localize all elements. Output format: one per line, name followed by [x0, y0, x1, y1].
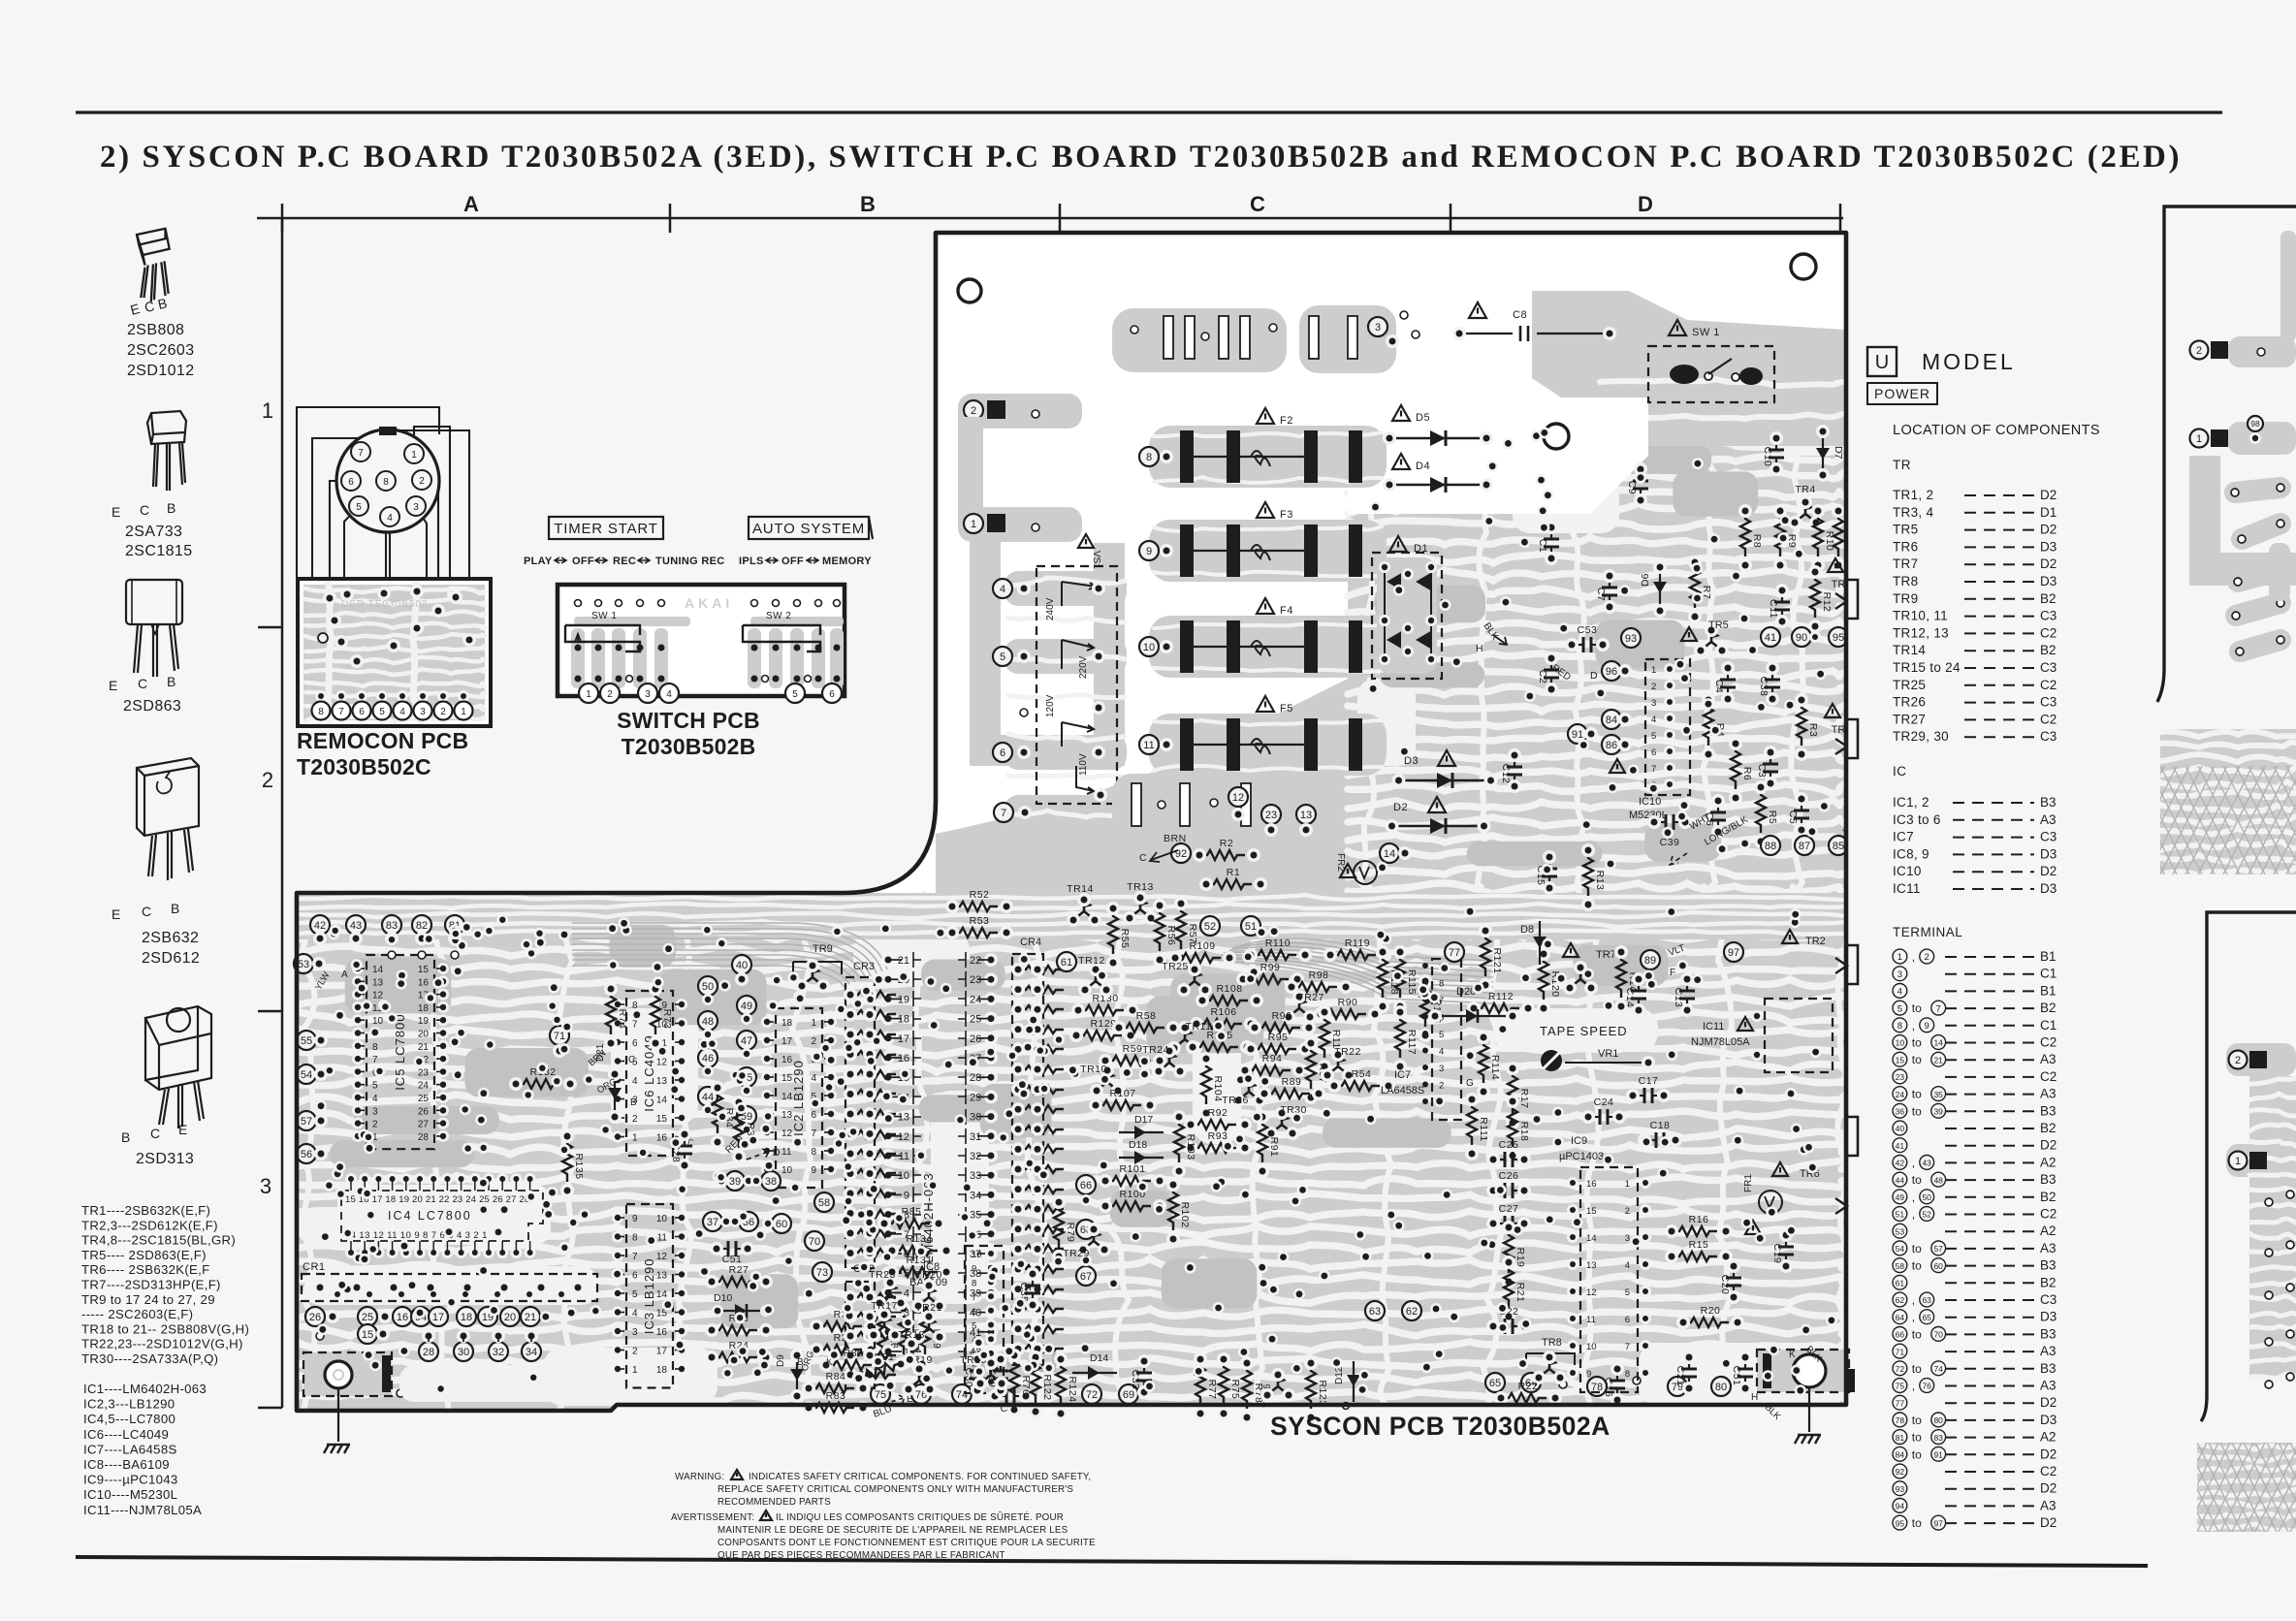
- svg-text:F3: F3: [1280, 509, 1293, 521]
- svg-text:3: 3: [1625, 1233, 1630, 1244]
- U MODEL header: [1867, 347, 1897, 376]
- diode D5: [1392, 405, 1410, 421]
- svg-text:75: 75: [875, 1389, 886, 1401]
- svg-text:10: 10: [656, 1214, 668, 1224]
- svg-text:R123: R123: [1317, 1380, 1328, 1406]
- svg-text:D4: D4: [1416, 461, 1430, 472]
- REMOCON DIN connector: [336, 429, 439, 532]
- svg-text:AUTO SYSTEM: AUTO SYSTEM: [752, 521, 865, 537]
- resistor R23: [712, 1325, 757, 1335]
- svg-text:7: 7: [1001, 808, 1006, 819]
- svg-text:7: 7: [811, 1128, 816, 1139]
- ruler tick: [281, 204, 284, 233]
- svg-text:2: 2: [971, 405, 976, 417]
- mounting hole bottom-right: [1757, 1350, 1849, 1392]
- svg-text:B2: B2: [2040, 1121, 2057, 1135]
- resistor R129: [1076, 1031, 1122, 1040]
- svg-text:CR1: CR1: [303, 1261, 326, 1273]
- svg-text:TR3, 4: TR3, 4: [1893, 505, 1934, 520]
- transistor TR17: [875, 1316, 894, 1334]
- svg-text:2SC2603: 2SC2603: [127, 342, 195, 359]
- svg-text:3: 3: [260, 1174, 271, 1198]
- svg-text:110V: 110V: [1078, 753, 1089, 776]
- SYSCON board outline: [297, 233, 1846, 1411]
- svg-text:95: 95: [1833, 632, 1844, 644]
- svg-text:R98: R98: [1309, 969, 1329, 981]
- svg-text:14: 14: [1384, 848, 1395, 860]
- fragment2 copper: [2226, 1043, 2296, 1076]
- svg-text:IC8, 9: IC8, 9: [1893, 846, 1929, 861]
- resistor R91: [1258, 1117, 1267, 1162]
- svg-text:A3: A3: [2040, 812, 2057, 827]
- svg-text:IC4 LC7800: IC4 LC7800: [388, 1209, 472, 1223]
- svg-text:A3: A3: [2040, 1241, 2057, 1255]
- svg-text:A3: A3: [2040, 1344, 2057, 1358]
- svg-text:96: 96: [1606, 666, 1617, 678]
- white pocket above bottom edge: [399, 1365, 618, 1402]
- svg-text:R73: R73: [661, 1009, 673, 1030]
- svg-text:C26: C26: [1499, 1170, 1519, 1182]
- svg-text:1: 1: [262, 398, 273, 423]
- vertical trace between terminals 2 and 1: [958, 417, 983, 519]
- svg-text:10: 10: [898, 1170, 909, 1182]
- resistor R55: [1108, 908, 1118, 954]
- svg-text:C2: C2: [2040, 625, 2057, 640]
- svg-text:C20: C20: [1719, 1275, 1731, 1295]
- svg-text:B3: B3: [2040, 1103, 2057, 1118]
- svg-text:R92: R92: [1208, 1107, 1228, 1119]
- ruler tick: [1839, 204, 1842, 233]
- transistor TR25: [1185, 970, 1204, 989]
- svg-text:R76: R76: [1020, 1376, 1032, 1396]
- resistor R79: [1054, 1202, 1064, 1248]
- mounting hole top-right: [1791, 254, 1816, 279]
- svg-text:TR17: TR17: [871, 1300, 898, 1312]
- svg-text:95: 95: [1896, 1518, 1905, 1528]
- svg-text:15: 15: [418, 965, 430, 975]
- connector pin 8: [376, 471, 396, 491]
- right fragment crosshatch block 2: [2197, 1443, 2296, 1532]
- svg-text:D: D: [1590, 670, 1598, 682]
- svg-text:6: 6: [972, 1307, 976, 1318]
- svg-text:SW 2: SW 2: [766, 611, 791, 621]
- IC8 BA6109 connector: [965, 1246, 1004, 1393]
- resistor R120: [1539, 954, 1548, 1000]
- svg-text:D3: D3: [2040, 1310, 2057, 1324]
- svg-text:44: 44: [1896, 1175, 1905, 1185]
- svg-text:TR25: TR25: [1893, 678, 1926, 692]
- svg-text:13: 13: [656, 1271, 668, 1282]
- svg-text:24: 24: [970, 994, 981, 1005]
- capacitor C4: [1727, 668, 1729, 679]
- svg-text:C: C: [140, 502, 149, 518]
- svg-text:A2: A2: [2040, 1430, 2057, 1445]
- svg-text:TR25: TR25: [1162, 961, 1189, 972]
- svg-text:13: 13: [656, 1076, 668, 1087]
- resistor R58: [1119, 1023, 1164, 1033]
- svg-text:D18: D18: [1129, 1139, 1147, 1151]
- svg-text:E: E: [109, 678, 117, 693]
- resistor R20: [1683, 1318, 1729, 1327]
- svg-text:R112: R112: [1488, 991, 1514, 1002]
- svg-text:C3: C3: [2040, 830, 2057, 844]
- resistor R3: [1797, 700, 1806, 746]
- fuse resistor FR2: [1340, 864, 1355, 877]
- svg-text:9: 9: [1146, 546, 1152, 557]
- svg-text:7: 7: [632, 1020, 638, 1031]
- svg-text:R54: R54: [1352, 1068, 1372, 1080]
- svg-text:65: 65: [1489, 1378, 1501, 1389]
- row tick 2-3: [258, 1010, 282, 1013]
- svg-text:B: B: [630, 1097, 637, 1108]
- capacitor C35: [1032, 1274, 1034, 1285]
- resistor R94: [1245, 1065, 1291, 1075]
- trace to SW1: [1532, 291, 1846, 446]
- svg-text:IC10----M5230L: IC10----M5230L: [83, 1487, 177, 1502]
- svg-text:7: 7: [1625, 1342, 1630, 1352]
- svg-text:TR1----2SB632K(E,F): TR1----2SB632K(E,F): [81, 1203, 210, 1218]
- svg-text:3: 3: [1439, 1064, 1444, 1074]
- terminal 61: [1057, 952, 1076, 971]
- svg-text:R17: R17: [1518, 1089, 1530, 1109]
- svg-text:TUNING REC: TUNING REC: [655, 556, 724, 567]
- svg-text:43: 43: [1922, 1159, 1931, 1168]
- svg-text:21: 21: [525, 1312, 536, 1323]
- resistor R36: [816, 1321, 862, 1331]
- svg-text:240V: 240V: [1045, 597, 1056, 620]
- svg-text:SYSCON PCB T2030B502A: SYSCON PCB T2030B502A: [1270, 1412, 1610, 1441]
- transistor TR10: [1098, 1071, 1117, 1090]
- svg-text:63: 63: [1922, 1295, 1931, 1305]
- svg-text:C17: C17: [1639, 1075, 1659, 1087]
- svg-text:C19: C19: [1771, 1244, 1783, 1264]
- svg-text:R111: R111: [1478, 1117, 1489, 1142]
- REMOCON PCB board outline: [298, 579, 491, 726]
- capacitor C19: [1785, 1235, 1787, 1246]
- svg-text:10: 10: [1143, 642, 1155, 653]
- svg-text:D7: D7: [1833, 446, 1844, 460]
- svg-text:220V: 220V: [1078, 655, 1089, 679]
- svg-text:D3: D3: [2040, 574, 2057, 588]
- svg-text:R114: R114: [1489, 1055, 1501, 1080]
- svg-text:8: 8: [632, 1233, 638, 1244]
- svg-text:R94: R94: [1262, 1053, 1283, 1065]
- svg-text:52: 52: [1922, 1210, 1931, 1220]
- resistor R59: [1105, 1056, 1151, 1065]
- svg-text:R22: R22: [1518, 1381, 1539, 1392]
- switch SW1 outline: [565, 625, 640, 652]
- resistor R92: [1191, 1120, 1236, 1129]
- svg-text:to: to: [1912, 1088, 1922, 1101]
- pads terminals 4-7: [1004, 571, 1127, 606]
- connector pin 7: [351, 442, 370, 461]
- svg-text:14: 14: [1933, 1038, 1943, 1048]
- svg-text:74: 74: [1933, 1364, 1943, 1374]
- svg-text:54: 54: [301, 1069, 312, 1081]
- fuse F5: [1149, 714, 1387, 776]
- svg-text:77: 77: [1896, 1398, 1905, 1408]
- capacitor C53: [1572, 644, 1582, 646]
- svg-text:42: 42: [1896, 1159, 1905, 1168]
- svg-text:75: 75: [1896, 1382, 1905, 1391]
- connector pin 1: [404, 444, 424, 463]
- REMOCON connector wiring: [297, 407, 469, 579]
- svg-text:R134: R134: [906, 1233, 932, 1245]
- svg-text:R13: R13: [1594, 871, 1606, 891]
- resistor R15: [1672, 1252, 1717, 1261]
- svg-text:OFF: OFF: [572, 556, 594, 567]
- svg-text:D14: D14: [1090, 1352, 1108, 1364]
- top slot pad band 2: [1299, 305, 1396, 373]
- svg-text:9: 9: [904, 1190, 909, 1201]
- svg-text:to: to: [1912, 1242, 1922, 1255]
- svg-text:D2: D2: [2040, 556, 2057, 571]
- svg-text:5: 5: [1625, 1287, 1630, 1298]
- svg-text:2: 2: [440, 707, 446, 717]
- transistor TR11: [1175, 1029, 1195, 1047]
- svg-text:B3: B3: [2040, 1361, 2057, 1376]
- transistor TR14: [1074, 901, 1094, 919]
- resistor R35: [734, 1102, 744, 1148]
- svg-text:2: 2: [632, 1347, 638, 1357]
- diode D7: [1822, 431, 1824, 475]
- resistor R116: [1420, 981, 1430, 1027]
- svg-text:TR13: TR13: [1127, 881, 1154, 893]
- copper band top of lower board: [297, 893, 1846, 939]
- terminal 7: [994, 803, 1013, 822]
- svg-text:120V: 120V: [1045, 694, 1056, 717]
- svg-text:6: 6: [348, 477, 354, 488]
- transistor TR7: [1563, 943, 1578, 957]
- svg-text:28: 28: [423, 1347, 434, 1358]
- capacitor C10: [1775, 438, 1777, 449]
- IC6 LC4049: [626, 991, 673, 1156]
- svg-text:34: 34: [526, 1347, 537, 1358]
- fuse resistor FR1: [1772, 1162, 1788, 1176]
- svg-text:14: 14: [656, 1096, 668, 1106]
- contour trace bundle corner: [1212, 960, 1493, 1003]
- ground lead bottom-right: [1808, 1387, 1810, 1432]
- terminal 85: [1829, 836, 1848, 855]
- svg-text:IL INDIQU LES COMPOSANTS CRITI: IL INDIQU LES COMPOSANTS CRITIQUES DE SÛ…: [776, 1512, 1064, 1523]
- svg-text:TR2,3---2SD612K(E,F): TR2,3---2SD612K(E,F): [81, 1218, 218, 1232]
- svg-text:TR9: TR9: [813, 943, 833, 955]
- svg-text:6: 6: [1625, 1315, 1630, 1325]
- svg-text:IC1----LM6402H-063: IC1----LM6402H-063: [83, 1382, 207, 1396]
- svg-text:62: 62: [1406, 1306, 1418, 1318]
- svg-text:6: 6: [1000, 747, 1005, 759]
- transistor package icon 2SA733/2SC1815: [147, 411, 186, 491]
- resistor R14: [1616, 952, 1626, 998]
- svg-text:2: 2: [811, 1036, 816, 1047]
- svg-text:3: 3: [372, 1106, 378, 1117]
- remocon pad 8: [312, 702, 331, 720]
- resistor R105: [1193, 1042, 1238, 1052]
- svg-text:44: 44: [702, 1092, 714, 1103]
- fragment1 terminal 1: [2190, 429, 2209, 448]
- svg-text:28: 28: [418, 1132, 430, 1143]
- svg-text:15: 15: [656, 1114, 668, 1125]
- resistor R98: [1291, 982, 1337, 992]
- svg-text:IC1, 2: IC1, 2: [1893, 795, 1929, 810]
- label box TIMER START: [549, 517, 663, 539]
- svg-text:57: 57: [301, 1116, 312, 1128]
- svg-text:----- 2SC2603(E,F): ----- 2SC2603(E,F): [81, 1307, 193, 1321]
- terminal 53: [294, 954, 313, 973]
- svg-text:8: 8: [1897, 1021, 1902, 1032]
- resistor R7: [1690, 562, 1700, 608]
- svg-text:TR5: TR5: [1708, 620, 1729, 631]
- svg-text:72: 72: [1896, 1364, 1905, 1374]
- svg-text:46: 46: [702, 1053, 714, 1065]
- svg-text:85: 85: [1833, 841, 1844, 852]
- svg-text:C3: C3: [2040, 660, 2057, 675]
- svg-text:D2: D2: [2040, 1395, 2057, 1410]
- terminal 10: [1139, 637, 1159, 656]
- resistor R99: [1243, 974, 1289, 984]
- svg-text:to: to: [1912, 1431, 1922, 1445]
- terminal 88: [1761, 836, 1780, 855]
- svg-text:R3: R3: [1807, 723, 1819, 737]
- transistor TR24: [1160, 1052, 1179, 1070]
- terminal 13: [1296, 805, 1316, 824]
- resistor R22: [1501, 1393, 1547, 1403]
- REMOCON PCB copper traces: [303, 582, 485, 722]
- svg-text:TIMER START: TIMER START: [554, 521, 657, 537]
- svg-text:15: 15: [362, 1329, 373, 1341]
- svg-text:21: 21: [1933, 1055, 1943, 1065]
- svg-text:TR26: TR26: [1222, 1095, 1249, 1106]
- svg-text:12: 12: [898, 1131, 909, 1143]
- svg-text:K: K: [1789, 1350, 1796, 1360]
- svg-text:3: 3: [1375, 322, 1381, 334]
- svg-text:21: 21: [418, 1042, 430, 1053]
- svg-text:R16: R16: [1689, 1214, 1709, 1225]
- svg-text:CR3: CR3: [853, 961, 875, 972]
- POWER header: [1867, 383, 1937, 404]
- svg-text:3: 3: [1651, 698, 1656, 709]
- svg-text:R108: R108: [1216, 983, 1242, 995]
- svg-text:A3: A3: [2040, 1087, 2057, 1101]
- svg-text:6: 6: [632, 1038, 638, 1049]
- svg-text:to: to: [1912, 1259, 1922, 1273]
- svg-text:TR9 to 17 24 to 27, 29: TR9 to 17 24 to 27, 29: [81, 1292, 215, 1307]
- label box AUTO SYSTEM: [749, 517, 869, 539]
- svg-text:6: 6: [632, 1271, 638, 1282]
- transistor TR29: [1084, 1230, 1103, 1249]
- capacitor C25: [1493, 1159, 1504, 1160]
- svg-text:C3: C3: [2040, 695, 2057, 710]
- right fragment board 2 outline: [2201, 912, 2296, 1421]
- svg-text:TR18 to 21-- 2SB808V(G,H): TR18 to 21-- 2SB808V(G,H): [81, 1321, 249, 1336]
- svg-text:D: D: [1638, 192, 1653, 216]
- svg-text:51: 51: [1245, 921, 1257, 933]
- svg-text:INDICATES SAFETY CRITICAL COMP: INDICATES SAFETY CRITICAL COMPONENTS. FO…: [749, 1472, 1091, 1482]
- fragment1 terminal 2: [2190, 341, 2209, 360]
- ruler tick: [1059, 204, 1062, 233]
- transistor TR20: [919, 1287, 939, 1305]
- connector CR1: [302, 1274, 597, 1301]
- svg-text:D3: D3: [2040, 881, 2057, 896]
- capacitor C2: [1550, 658, 1552, 669]
- svg-text:B2: B2: [2040, 1190, 2057, 1204]
- terminals 40 50 49 48 47 46 45 44 59: [732, 955, 751, 974]
- resistor R83: [809, 1403, 854, 1413]
- svg-text:C3: C3: [1756, 764, 1768, 778]
- svg-text:7: 7: [1651, 764, 1656, 775]
- svg-text:57: 57: [1933, 1244, 1943, 1254]
- switch bottom terminals: [579, 683, 598, 703]
- svg-text:D2: D2: [2040, 864, 2057, 878]
- svg-text:µPC1403: µPC1403: [1559, 1151, 1604, 1162]
- resistor R117: [1395, 1012, 1405, 1058]
- capacitor C51b: [1744, 1357, 1746, 1368]
- svg-text:A2: A2: [2040, 1224, 2057, 1238]
- svg-text:TR5: TR5: [1893, 523, 1918, 537]
- svg-text:8: 8: [811, 1147, 816, 1158]
- svg-text:LOCATION OF COMPONENTS: LOCATION OF COMPONENTS: [1893, 423, 2100, 438]
- svg-text:25: 25: [418, 1094, 430, 1104]
- resistor R132: [516, 1079, 561, 1089]
- svg-text:51: 51: [1896, 1210, 1905, 1220]
- resistor R12: [1810, 572, 1820, 618]
- svg-text:R106: R106: [1210, 1006, 1236, 1018]
- svg-text:R109: R109: [1189, 940, 1215, 952]
- terminal 71: [550, 1026, 569, 1045]
- svg-text:B1: B1: [2040, 983, 2057, 998]
- svg-text:5: 5: [632, 1289, 638, 1300]
- ruler tick: [669, 204, 672, 233]
- svg-text:REPLACE SAFETY CRITICAL COMPON: REPLACE SAFETY CRITICAL COMPONENTS ONLY …: [717, 1484, 1073, 1495]
- svg-text:92: 92: [1896, 1467, 1905, 1477]
- resistor R111: [1467, 1099, 1477, 1145]
- svg-text:12: 12: [656, 1058, 668, 1068]
- svg-text:R77: R77: [1206, 1380, 1218, 1400]
- svg-text:1: 1: [1625, 1179, 1630, 1190]
- svg-text:71: 71: [554, 1031, 565, 1042]
- svg-text:,: ,: [1912, 1311, 1915, 1324]
- svg-text:C21: C21: [1674, 1366, 1686, 1386]
- svg-text:R101: R101: [1119, 1163, 1145, 1175]
- resistors R52 R53: [952, 902, 998, 911]
- resistor R5: [1756, 787, 1766, 833]
- resistor R110: [1251, 950, 1296, 960]
- svg-text:MAINTENIR LE DEGRE DE SECURITE: MAINTENIR LE DEGRE DE SECURITE DE L'APPA…: [717, 1525, 1068, 1536]
- svg-text:VS1: VS1: [1091, 551, 1101, 569]
- svg-text:93: 93: [1625, 633, 1637, 645]
- svg-text:26: 26: [418, 1106, 430, 1117]
- svg-text:FR2: FR2: [1335, 853, 1346, 872]
- svg-text:1: 1: [1897, 952, 1902, 963]
- svg-text:3: 3: [632, 1327, 638, 1338]
- svg-text:D2: D2: [1393, 802, 1408, 813]
- svg-text:R84: R84: [826, 1371, 846, 1383]
- svg-text:20: 20: [504, 1312, 516, 1323]
- svg-text:BRN: BRN: [1164, 833, 1187, 844]
- capacitor C38: [1771, 668, 1773, 679]
- terminal 55: [297, 1031, 316, 1050]
- svg-text:97: 97: [1933, 1518, 1943, 1528]
- svg-text:to: to: [1912, 1053, 1922, 1066]
- svg-text:C: C: [150, 1126, 160, 1141]
- terminal 66: [1076, 1175, 1096, 1194]
- svg-text:18: 18: [898, 1014, 909, 1026]
- copper trace field lower board: [297, 893, 1846, 1411]
- svg-text:60: 60: [1933, 1261, 1943, 1271]
- svg-text:T2030B502B: T2030B502B: [622, 734, 756, 759]
- svg-text:13: 13: [1300, 810, 1312, 821]
- svg-text:TR2: TR2: [1805, 936, 1826, 947]
